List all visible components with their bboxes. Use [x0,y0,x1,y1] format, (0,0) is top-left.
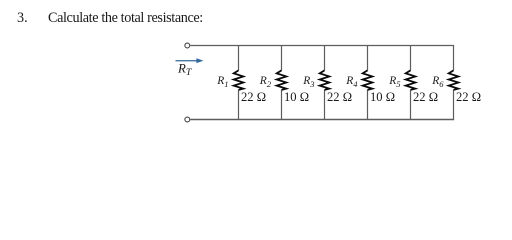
wire branch R3 top stub [324,46,326,71]
svg-text:Calculate the total resistance: Calculate the total resistance: [48,10,203,26]
svg-text:10 Ω: 10 Ω [284,90,309,104]
svg-text:3.: 3. [17,10,28,26]
svg-text:22 Ω: 22 Ω [241,90,266,104]
wire branch R3 bottom stub [324,90,326,120]
svg-text:22 Ω: 22 Ω [456,90,481,104]
svg-text:R6: R6 [431,75,444,89]
problem text [17,10,203,26]
wire branch R4 top stub [367,46,369,71]
resistor R3 [320,70,330,90]
RT current arrow [176,58,204,63]
terminal bottom-left [185,117,190,122]
wire branch R2 bottom stub [281,90,283,120]
resistor R5 [406,70,416,90]
resistor R6 [449,70,459,90]
wire top rail [190,45,454,47]
resistor R1 [234,70,244,90]
wire branch R6 top stub [453,46,455,71]
svg-text:R3: R3 [302,75,314,89]
wire branch R1 bottom stub [238,90,240,120]
svg-text:10 Ω: 10 Ω [370,90,395,104]
wire branch R6 bottom stub [453,90,455,120]
svg-text:22 Ω: 22 Ω [413,90,438,104]
svg-text:R4: R4 [345,75,358,89]
terminal top-left [185,43,190,48]
wire branch R1 top stub [238,46,240,71]
wire branch R4 bottom stub [367,90,369,120]
svg-text:R1: R1 [216,75,228,89]
wire bottom rail [190,119,454,121]
resistor R4 [363,70,373,90]
svg-text:22 Ω: 22 Ω [327,90,352,104]
svg-text:R2: R2 [259,75,272,89]
wire branch R5 top stub [410,46,412,71]
wire branch R2 top stub [281,46,283,71]
resistor R2 [277,70,287,90]
svg-text:RT: RT [177,61,193,78]
wire branch R5 bottom stub [410,90,412,120]
svg-text:R5: R5 [388,75,400,89]
